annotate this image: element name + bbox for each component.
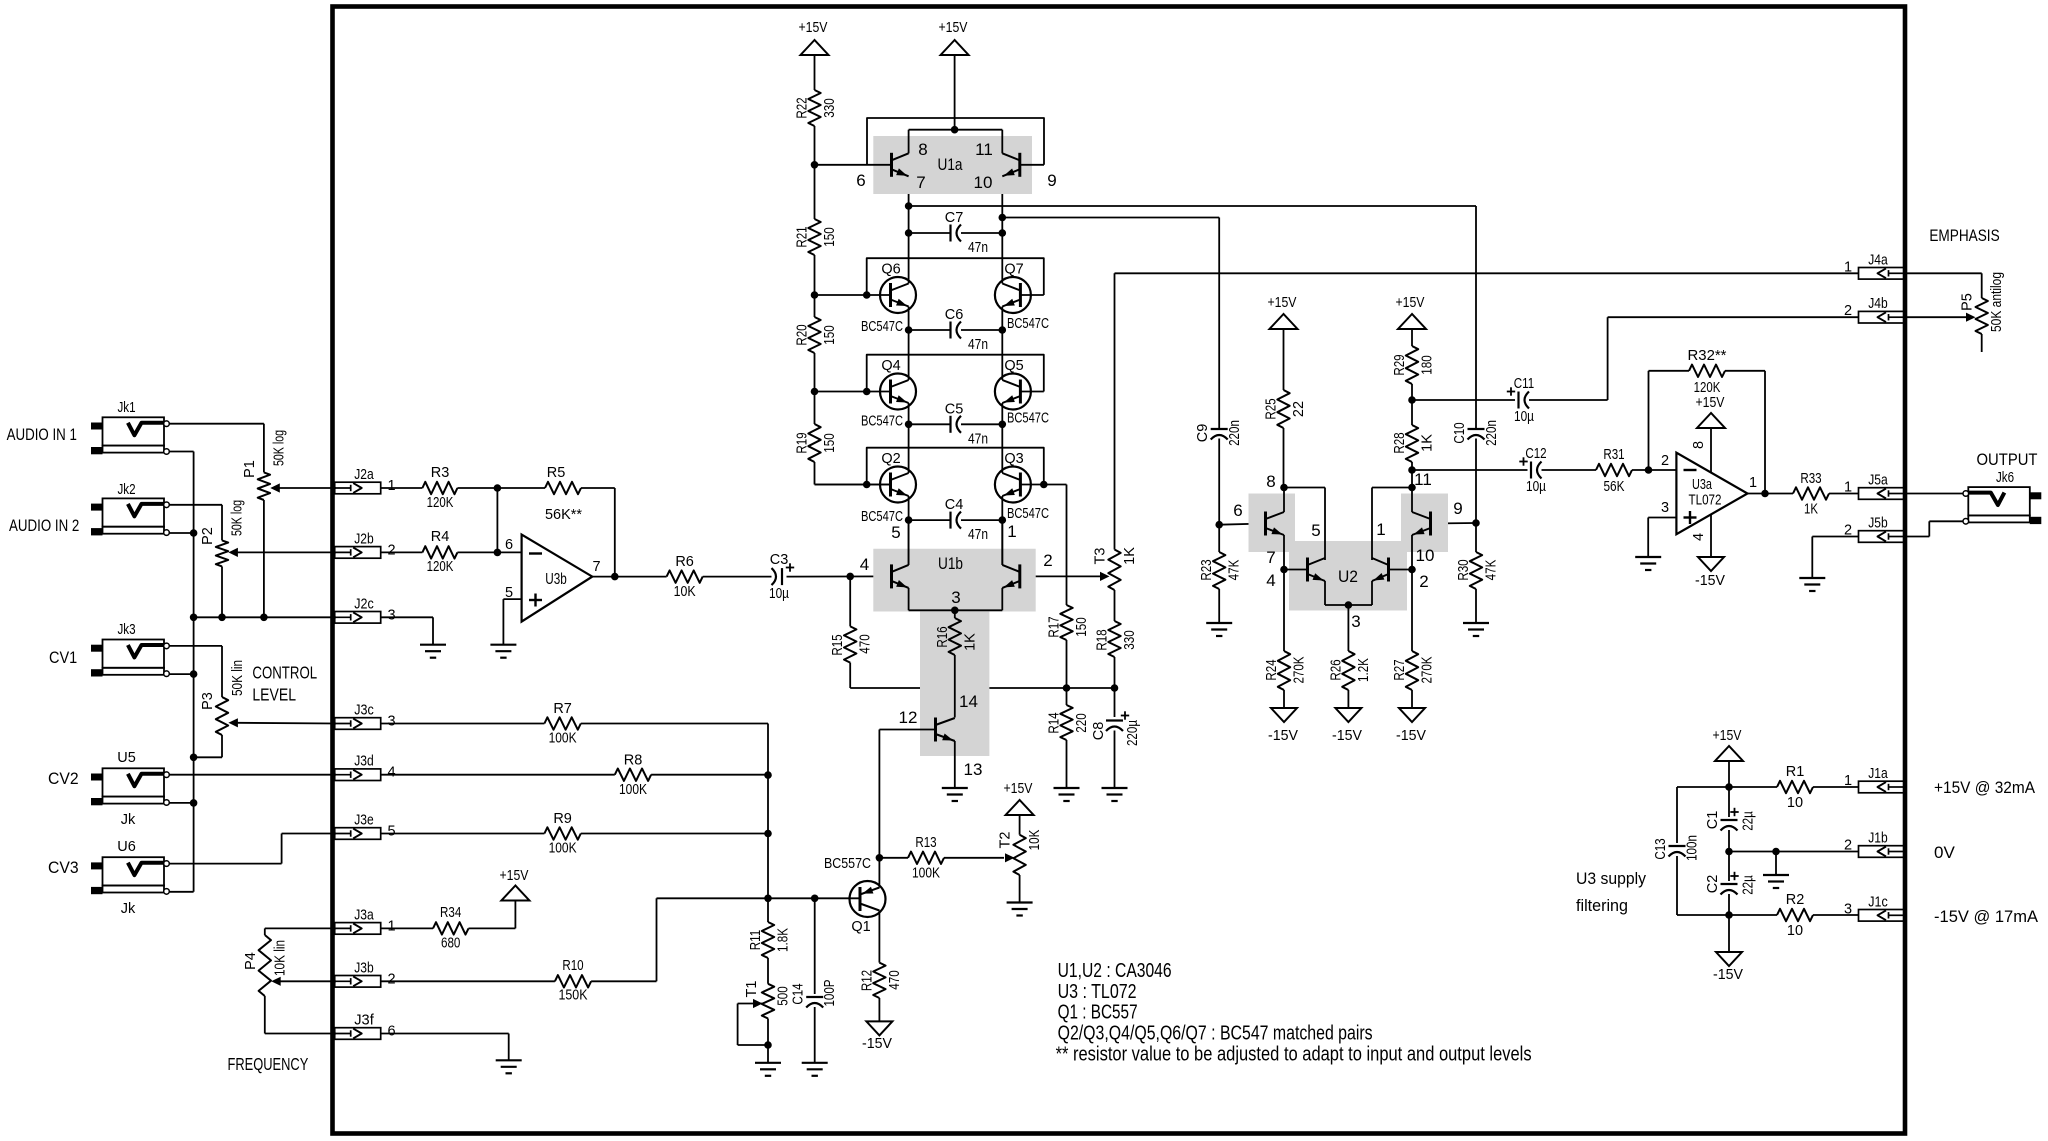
transistor Q1 BC557	[850, 881, 886, 917]
svg-text:8: 8	[1266, 472, 1275, 491]
value 120K (R32)	[1694, 380, 1721, 396]
label P2	[200, 527, 216, 545]
svg-text:J5b: J5b	[1868, 516, 1888, 532]
label C9	[1195, 424, 1211, 443]
svg-text:C13: C13	[1653, 838, 1669, 859]
label U1a	[938, 156, 964, 174]
value 47n (C4)	[968, 527, 988, 543]
svg-text:R2: R2	[1786, 892, 1805, 908]
svg-text:50K lin: 50K lin	[230, 660, 246, 696]
pin 1 of J3a	[387, 918, 395, 934]
ground R30	[1463, 623, 1489, 636]
wire base Q6	[815, 294, 891, 296]
svg-text:C14: C14	[791, 983, 807, 1004]
ground R14	[1054, 788, 1080, 801]
junction R4/pin6	[494, 549, 502, 557]
value 10u (C12)	[1526, 479, 1547, 495]
pin 3 of J1c	[1844, 901, 1852, 917]
label R28	[1392, 432, 1408, 453]
svg-text:3: 3	[387, 607, 395, 623]
capacitor C8	[1106, 688, 1129, 788]
svg-text:5: 5	[387, 824, 395, 840]
pin 4 of U3a	[1691, 533, 1707, 541]
junction R28/C12	[1408, 466, 1416, 474]
label 50K log (P2)	[230, 500, 246, 536]
junction CV sum node	[764, 895, 772, 903]
value 56K** (R5)	[545, 507, 582, 523]
svg-text:100P: 100P	[822, 979, 838, 1006]
svg-text:47K: 47K	[1484, 559, 1500, 580]
svg-text:2: 2	[1043, 551, 1052, 570]
svg-text:1: 1	[387, 918, 395, 934]
wire right column Q7-C6	[1001, 307, 1003, 381]
svg-text:R18: R18	[1095, 629, 1111, 650]
pin 3 of J2c	[387, 607, 395, 623]
connector J4b	[1859, 311, 1905, 323]
transistor U1b right (pin 2/1/3)	[1002, 564, 1020, 588]
wire node to U3b pin6	[497, 551, 521, 553]
pin 14 of U1b	[959, 692, 978, 711]
value 22u (C1)	[1741, 811, 1757, 831]
wire U1a base loop	[867, 118, 1044, 165]
ground J5b	[1799, 578, 1825, 591]
pin 2 of J1b	[1844, 838, 1852, 854]
svg-text:J4b: J4b	[1868, 296, 1888, 312]
pin 6 of U2	[1233, 501, 1242, 520]
wire pin7 down to R24	[1283, 570, 1285, 652]
svg-text:680: 680	[441, 936, 460, 952]
label Q3	[1004, 451, 1023, 467]
connector J3e	[335, 828, 381, 840]
wire riser R9-base	[767, 834, 769, 899]
svg-text:FREQUENCY: FREQUENCY	[228, 1054, 309, 1074]
wire U3a pin4	[1710, 514, 1712, 557]
capacitor C2	[1721, 852, 1739, 916]
svg-text:R3: R3	[431, 465, 450, 481]
junction C5 right	[999, 421, 1007, 429]
resistor R3	[422, 482, 457, 494]
label BC557C	[824, 856, 871, 872]
svg-text:Q4: Q4	[881, 358, 900, 374]
wire J3c to R7	[381, 723, 545, 725]
svg-text:AUDIO IN 2: AUDIO IN 2	[9, 516, 79, 535]
wire J4b to P5 wiper	[1905, 313, 1976, 322]
svg-text:14: 14	[959, 692, 978, 711]
resistor R11	[762, 898, 774, 984]
label BC547C right (C4)	[1007, 506, 1049, 522]
wire left column Q2-C4	[908, 496, 910, 565]
jack Jk6 (OUTPUT)	[1963, 487, 2041, 524]
svg-text:Jk: Jk	[121, 812, 136, 828]
svg-text:R5: R5	[547, 465, 566, 481]
svg-text:12: 12	[899, 708, 918, 727]
svg-text:7: 7	[592, 559, 600, 575]
wire pin9 into U2	[1431, 522, 1477, 525]
svg-text:2: 2	[1419, 572, 1428, 591]
wire Jk3 tip to P3	[170, 646, 223, 697]
svg-text:Q1 : BC557: Q1 : BC557	[1058, 1002, 1138, 1024]
label BC547C left (C4)	[861, 509, 903, 525]
note line 1	[1058, 960, 1172, 982]
label U3 supply	[1576, 869, 1646, 888]
resistor R23	[1213, 525, 1225, 623]
svg-text:1: 1	[387, 478, 395, 494]
transistor Q6	[880, 277, 916, 313]
label AUDIO IN 2	[9, 516, 79, 535]
value 680 (R34)	[441, 936, 460, 952]
label J2a	[354, 467, 374, 483]
ground 0V	[1763, 875, 1789, 888]
svg-text:Q1: Q1	[851, 919, 870, 935]
svg-text:R6: R6	[675, 554, 694, 570]
value 47n (C7)	[968, 240, 988, 256]
resistor R14	[1060, 688, 1072, 788]
wire J2a to R3	[381, 487, 423, 489]
IC block U1b (CA3046 half)	[873, 549, 1035, 756]
wire ground bus to J2c	[194, 616, 336, 618]
junction C6 left	[905, 326, 913, 334]
wire pin3 down to R26	[1347, 605, 1349, 651]
transistor Q7	[995, 277, 1031, 313]
svg-text:47n: 47n	[968, 337, 988, 353]
junction R3/R5	[494, 484, 502, 492]
label +15V (R34)	[500, 868, 529, 884]
svg-text:P4: P4	[243, 952, 259, 970]
junction pin2/R32	[1645, 466, 1653, 474]
svg-text:J1c: J1c	[1868, 894, 1888, 910]
transistor U1a left (pin 6/8/7)	[892, 153, 909, 177]
pin 1 of U2	[1376, 520, 1385, 539]
junction C14 top	[811, 895, 819, 903]
power -15V (R27)	[1399, 708, 1425, 722]
svg-text:9: 9	[1047, 171, 1056, 190]
label R2	[1786, 892, 1805, 908]
junction feedback	[611, 573, 619, 581]
capacitor C11	[1507, 387, 1529, 408]
junction R29/C11	[1408, 396, 1416, 404]
svg-text:+15V: +15V	[1004, 781, 1033, 797]
svg-text:10: 10	[1787, 795, 1803, 811]
potentiometer P2	[216, 540, 228, 566]
ground U3a pin3	[1635, 557, 1661, 570]
pin 8 of U1a	[918, 140, 927, 159]
wire U2 left emitter down	[1283, 535, 1285, 570]
wire R3 to node	[457, 487, 497, 489]
value 10 (R1)	[1787, 795, 1803, 811]
junction C3/R15	[846, 573, 854, 581]
label C8	[1091, 722, 1107, 741]
svg-text:U3a: U3a	[1692, 477, 1713, 493]
jack Jk3 (CV1)	[91, 640, 169, 677]
pin 6 of J3f	[387, 1024, 395, 1040]
resistor R33	[1793, 487, 1829, 499]
svg-text:+15V @ 32mA: +15V @ 32mA	[1934, 778, 2036, 797]
svg-text:10K lin: 10K lin	[273, 940, 289, 976]
wire J4a to P5	[1905, 273, 1982, 298]
label J5b	[1868, 516, 1888, 532]
connector J4a	[1859, 268, 1905, 280]
svg-text:J3b: J3b	[354, 960, 374, 976]
wire C11 to J4b	[1529, 317, 1859, 400]
junction Q3 base to R17	[1040, 481, 1048, 489]
value 1.8K (R11)	[776, 928, 792, 952]
wire pin 12 to Q1 emitter	[879, 730, 935, 888]
label Jk2	[117, 482, 135, 498]
svg-text:+15V: +15V	[1696, 395, 1725, 411]
note line 5	[1056, 1044, 1532, 1066]
svg-text:CV3: CV3	[48, 858, 79, 877]
label C13	[1653, 838, 1669, 859]
svg-text:22: 22	[1291, 401, 1307, 417]
label R16	[935, 626, 951, 647]
label R19	[795, 432, 811, 453]
svg-text:R19: R19	[795, 432, 811, 453]
pin 1 of J2a	[387, 478, 395, 494]
transistor U1b left (pin 4/5/3)	[892, 564, 909, 588]
label C7	[945, 210, 964, 226]
trimmer T2	[1013, 835, 1025, 903]
label Jk1	[117, 400, 135, 416]
svg-text:-15V: -15V	[1695, 573, 1725, 589]
resistor R34	[433, 922, 469, 934]
wire U1a pin9	[1020, 164, 1044, 166]
label J3b	[354, 960, 374, 976]
svg-text:R25: R25	[1264, 398, 1280, 419]
wire R4 to node	[457, 551, 497, 553]
svg-text:C10: C10	[1452, 422, 1468, 443]
svg-text:C8: C8	[1091, 722, 1107, 741]
transistor Q3	[995, 467, 1031, 503]
svg-text:Q5: Q5	[1004, 358, 1023, 374]
wire riser R8-R9	[767, 775, 769, 833]
label +15V (U1a)	[939, 20, 968, 36]
junction output/R32	[1761, 490, 1769, 498]
value 150 (R19)	[822, 433, 838, 452]
wire right column U1a to C7	[1001, 178, 1003, 284]
pin 2 of J4b	[1844, 303, 1852, 319]
pin 1 of U1b	[1007, 522, 1016, 541]
pin 1 of U3a	[1749, 475, 1757, 491]
label R29	[1392, 354, 1408, 375]
label R22	[795, 97, 811, 118]
svg-text:7: 7	[1266, 548, 1275, 567]
resistor R26	[1342, 651, 1354, 708]
pin 6 of U1a	[856, 171, 865, 190]
wire P4 bottom to J3f	[265, 996, 336, 1034]
wire pin 13 to ground	[954, 741, 956, 788]
svg-text:330: 330	[822, 98, 838, 117]
svg-text:Jk6: Jk6	[1996, 470, 2014, 486]
label R11	[748, 930, 764, 950]
label R24	[1264, 659, 1280, 680]
svg-text:150: 150	[1074, 617, 1090, 636]
power +15V (U3a pin8)	[1697, 413, 1725, 473]
pin 5 of U1b	[891, 523, 900, 542]
label BC547C left (C6)	[861, 319, 903, 335]
junction C6 right	[999, 326, 1007, 334]
svg-text:Q2: Q2	[881, 451, 900, 467]
svg-text:R12: R12	[859, 970, 875, 991]
pin 9 of U1a	[1047, 171, 1056, 190]
label R13	[915, 835, 936, 851]
svg-text:120K: 120K	[427, 495, 454, 511]
junction 0V ground	[1772, 848, 1780, 856]
potentiometer P1	[258, 472, 270, 500]
svg-text:500: 500	[776, 986, 792, 1005]
label J2c	[354, 596, 374, 612]
label R20	[795, 324, 811, 345]
wire Jk3 sleeve to bus	[170, 673, 194, 675]
svg-text:BC557C: BC557C	[824, 856, 871, 872]
capacitor C9	[1211, 429, 1228, 525]
junction U2 pin9	[1472, 519, 1480, 527]
label -15V (R24)	[1268, 728, 1298, 744]
value 100K (R9)	[549, 841, 577, 857]
wire J2b to R4	[381, 551, 423, 553]
wire R31 to U3a pin2	[1632, 469, 1676, 471]
label LEVEL	[252, 685, 296, 705]
power +15V (T2)	[1006, 800, 1034, 835]
svg-text:+15V: +15V	[939, 20, 968, 36]
resistor R32	[1689, 365, 1725, 377]
svg-text:1: 1	[1007, 522, 1016, 541]
wire J3a to R34	[381, 927, 433, 929]
wire C3 to U1b pin4	[787, 575, 892, 577]
pin 7 of U3b	[592, 559, 600, 575]
label R25	[1264, 398, 1280, 419]
transistor Q5	[995, 374, 1031, 410]
wire R10 to Q1 base node	[591, 898, 656, 981]
svg-text:+15V: +15V	[1268, 295, 1297, 311]
value 10u (C11)	[1514, 409, 1535, 425]
label J1a	[1868, 766, 1888, 782]
wire U1b right collector up (pin 1)	[1001, 520, 1003, 565]
svg-text:1.2K: 1.2K	[1356, 658, 1372, 682]
wire pin10 to inner base	[1389, 569, 1413, 571]
power +15V (R34)	[501, 886, 529, 901]
label C6	[945, 307, 964, 323]
wire R2 to J1c	[1813, 914, 1859, 916]
svg-text:J1b: J1b	[1868, 831, 1888, 847]
value 47n (C6)	[968, 337, 988, 353]
pin 9 of U2	[1453, 499, 1462, 518]
label J4a	[1868, 252, 1888, 268]
junction base Q6	[863, 291, 871, 299]
svg-text:22µ: 22µ	[1741, 875, 1757, 895]
potentiometer P5	[1976, 298, 1988, 352]
pin 2 of U1b	[1043, 551, 1052, 570]
label CONTROL	[252, 663, 317, 683]
wire Jk6 sleeve to J5b	[1905, 521, 1964, 536]
svg-text:47K: 47K	[1227, 559, 1243, 580]
resistor R30	[1470, 523, 1482, 623]
power +15V (R22)	[801, 40, 829, 90]
label Jk3	[117, 622, 135, 638]
resistor R2	[1777, 909, 1813, 921]
wire node to C12	[1412, 469, 1528, 471]
svg-text:C4: C4	[945, 497, 964, 513]
resistor R1	[1777, 781, 1813, 793]
label R17	[1047, 616, 1063, 637]
junction R13	[876, 854, 884, 862]
svg-text:+15V: +15V	[1713, 728, 1742, 744]
label +15V (R29)	[1396, 295, 1425, 311]
svg-text:56K: 56K	[1604, 479, 1625, 495]
pin 3 of U3a	[1661, 500, 1669, 516]
value 470 (R15)	[858, 634, 874, 653]
value 150 (R21)	[822, 227, 838, 246]
svg-text:J4a: J4a	[1868, 252, 1888, 268]
label C14	[791, 983, 807, 1004]
value 150 (R17)	[1074, 617, 1090, 636]
value 47K (R23)	[1227, 559, 1243, 580]
svg-text:120K: 120K	[1694, 380, 1721, 396]
resistor R28	[1406, 400, 1418, 488]
junction long wire A	[905, 202, 913, 210]
pin 11 of U1a	[975, 140, 993, 159]
label R23	[1199, 559, 1215, 580]
svg-text:10K: 10K	[1027, 829, 1043, 850]
svg-text:C12: C12	[1525, 446, 1546, 462]
wire U6 sleeve to bus	[170, 891, 194, 893]
resistor R15	[844, 576, 856, 688]
label J3e	[354, 813, 374, 829]
wire R8 to riser	[651, 774, 768, 776]
svg-text:6: 6	[1233, 501, 1242, 520]
potentiometer P3	[216, 697, 228, 735]
wire U1a left collector	[908, 130, 910, 154]
svg-text:9: 9	[1453, 499, 1462, 518]
wire R34 to +15V	[469, 901, 516, 929]
svg-text:6: 6	[856, 171, 865, 190]
wire left column U1a to C7	[908, 178, 910, 284]
resistor R9	[544, 827, 580, 839]
svg-text:150K: 150K	[559, 988, 588, 1004]
svg-text:R29: R29	[1392, 354, 1408, 375]
svg-text:filtering: filtering	[1576, 896, 1628, 915]
wire Q3 base to R17	[1044, 485, 1067, 606]
transistor U2 inner-right (pin 2/1/3)	[1372, 558, 1389, 582]
ground R23	[1206, 623, 1232, 636]
wire base Q4	[815, 391, 891, 393]
wire pin1 to pin11	[1372, 488, 1412, 561]
wire P2 wiper to J2b	[228, 548, 336, 557]
label R12	[859, 970, 875, 991]
wire node link	[496, 488, 498, 552]
svg-text:C6: C6	[945, 307, 964, 323]
junction long wire B	[999, 214, 1007, 222]
value 10K (T2)	[1027, 829, 1043, 850]
connector J2a	[335, 482, 381, 494]
junction pin 3 U1b	[951, 607, 959, 615]
wire U1a right collector	[1001, 130, 1003, 154]
junction base Q4	[863, 388, 871, 396]
label AUDIO IN 1	[7, 425, 77, 444]
junction R9	[764, 830, 772, 838]
wire J5a to Jk6 tip	[1905, 493, 1964, 495]
label J1c	[1868, 894, 1888, 910]
label +15V @ 32mA	[1934, 778, 2036, 797]
svg-text:R24: R24	[1264, 659, 1280, 680]
connector J3f	[335, 1028, 381, 1040]
label 50K log (P1)	[272, 430, 288, 466]
svg-text:R22: R22	[795, 97, 811, 118]
wire Jk1 tip to P1	[170, 424, 264, 473]
svg-text:J3c: J3c	[354, 703, 374, 719]
svg-text:10: 10	[1416, 546, 1435, 565]
svg-text:LEVEL: LEVEL	[252, 685, 296, 705]
value 10u (C3)	[769, 586, 790, 602]
